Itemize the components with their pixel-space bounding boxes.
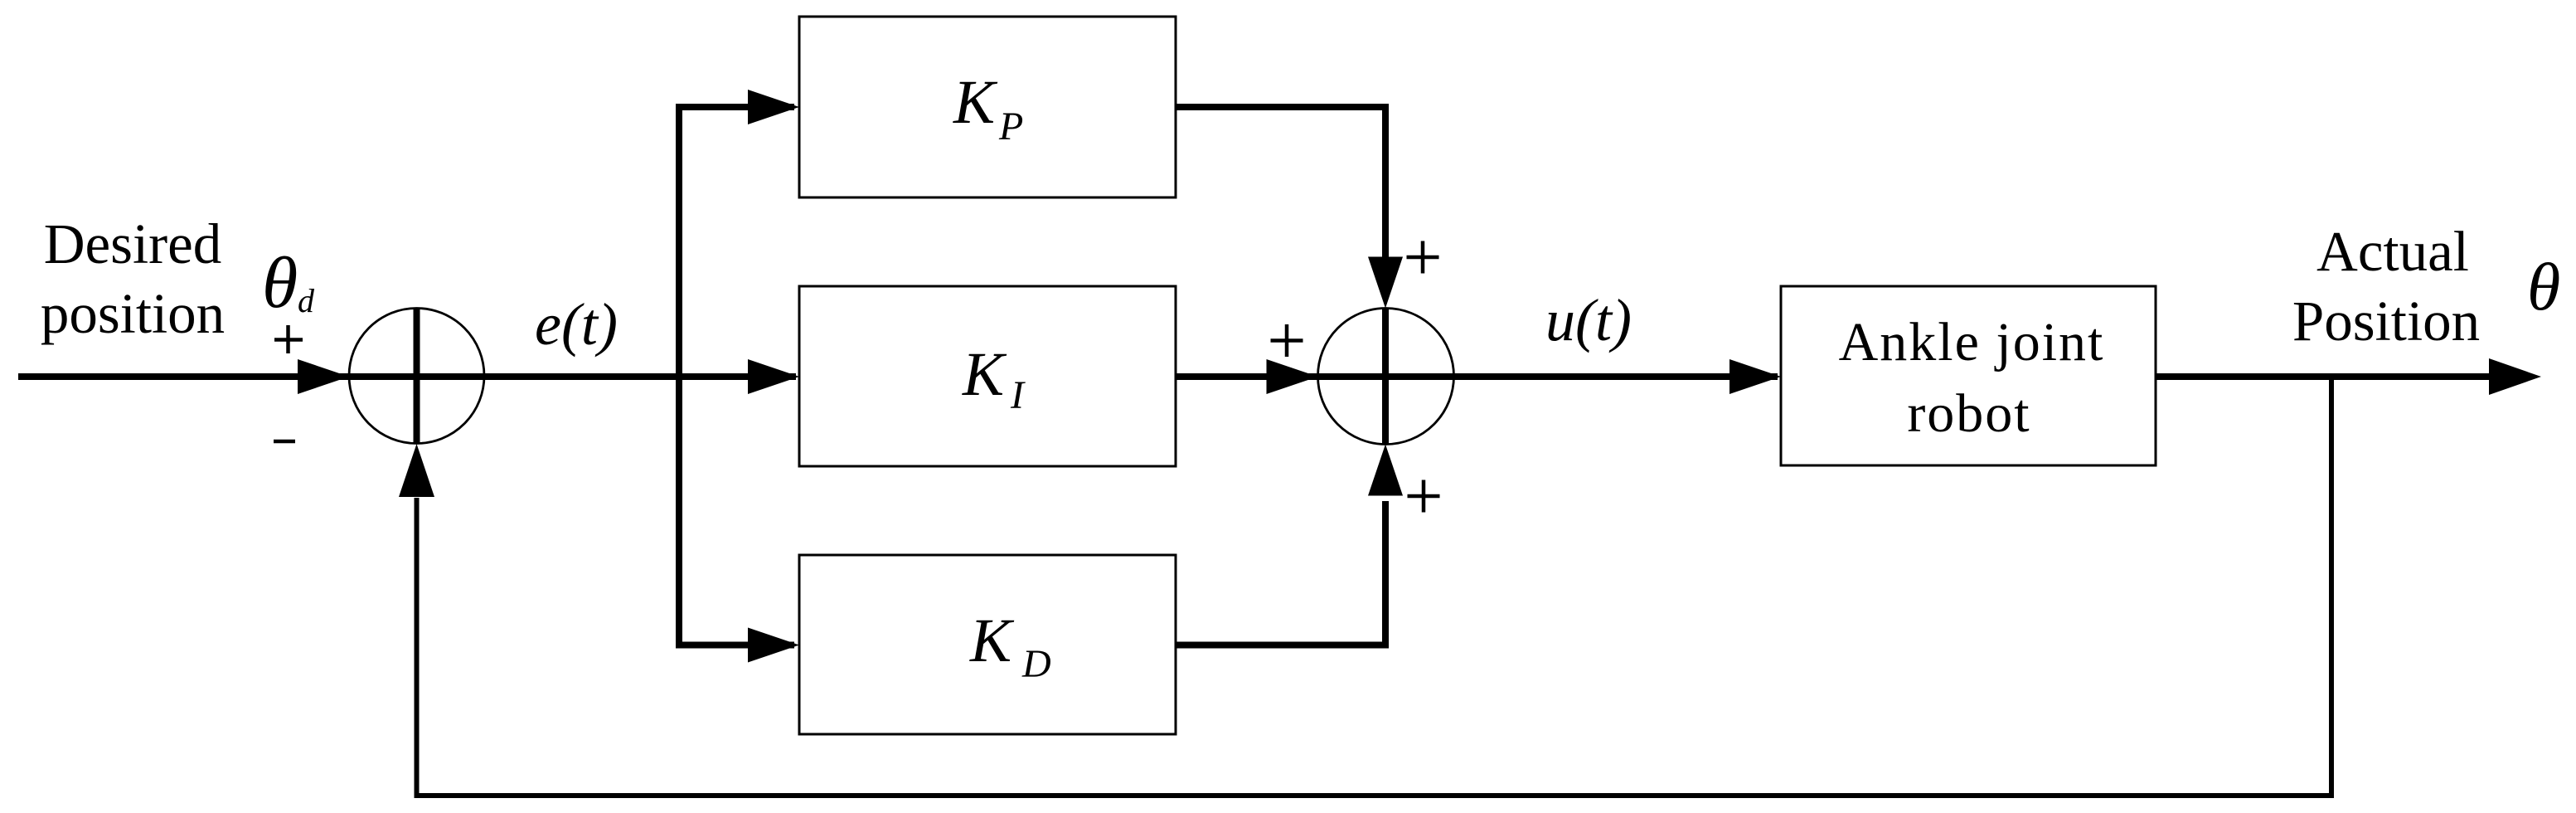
svg-text:I: I xyxy=(1010,373,1026,417)
svg-text:d: d xyxy=(298,282,315,319)
svg-text:K: K xyxy=(953,68,998,137)
svg-text:position: position xyxy=(41,282,225,345)
svg-text:Ankle joint: Ankle joint xyxy=(1839,312,2105,372)
svg-text:D: D xyxy=(1021,642,1051,686)
svg-text:Actual: Actual xyxy=(2316,220,2469,283)
svg-text:u(t): u(t) xyxy=(1545,287,1632,353)
svg-text:robot: robot xyxy=(1907,383,2030,444)
svg-text:K: K xyxy=(969,606,1015,675)
svg-text:Desired: Desired xyxy=(44,212,222,275)
svg-text:Position: Position xyxy=(2292,290,2480,353)
svg-text:e(t): e(t) xyxy=(535,291,618,358)
svg-text:θ: θ xyxy=(2527,249,2560,324)
svg-text:P: P xyxy=(998,105,1023,148)
svg-text:K: K xyxy=(962,340,1007,409)
svg-text:θ: θ xyxy=(262,243,298,324)
